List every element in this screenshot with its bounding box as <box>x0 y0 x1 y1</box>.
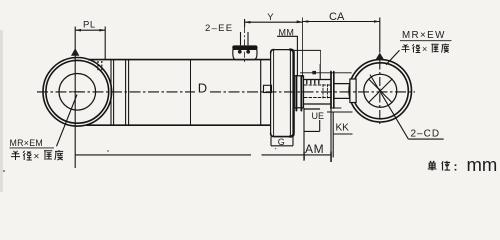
svg-text:×: × <box>34 152 40 163</box>
svg-text:Y: Y <box>267 12 274 23</box>
svg-text::: : <box>454 160 458 174</box>
svg-text:CA: CA <box>329 11 345 23</box>
svg-text:MR×EW: MR×EW <box>402 30 446 41</box>
svg-text:2–EE: 2–EE <box>205 23 233 34</box>
svg-text:×: × <box>422 44 427 54</box>
svg-text:MM: MM <box>279 27 295 37</box>
svg-text:G: G <box>278 137 285 147</box>
svg-text:AM: AM <box>305 142 324 156</box>
svg-text:KK: KK <box>336 123 350 134</box>
svg-text:mm: mm <box>467 154 498 175</box>
svg-text:PL: PL <box>83 20 96 31</box>
svg-text:MR×EM: MR×EM <box>10 138 44 148</box>
svg-text:D: D <box>198 81 207 96</box>
svg-text:UE: UE <box>312 111 325 121</box>
svg-text:2–CD: 2–CD <box>411 128 441 139</box>
